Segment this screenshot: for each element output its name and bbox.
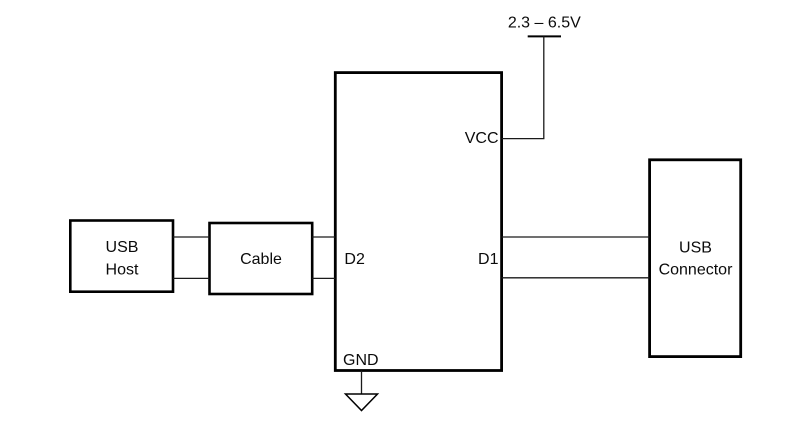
- wire VCC horizontal (pin VCC to supply drop): [502, 138, 545, 140]
- svg-text:2.3 – 6.5V: 2.3 – 6.5V: [508, 15, 581, 32]
- wire supply vertical (rail to VCC wire): [543, 36, 545, 138]
- block Cable: [210, 223, 313, 294]
- ground symbol: [346, 394, 378, 411]
- wire D2 lower: Cable to device: [312, 277, 335, 279]
- svg-text:Host: Host: [106, 261, 139, 278]
- svg-text:D2: D2: [344, 251, 365, 268]
- device block U1 (USB transceiver): [335, 73, 501, 371]
- block USB Host: [70, 221, 173, 292]
- svg-text:USB: USB: [106, 239, 139, 256]
- svg-text:D1: D1: [478, 251, 499, 268]
- svg-text:Cable: Cable: [240, 251, 282, 268]
- svg-text:VCC: VCC: [465, 130, 499, 147]
- power supply rail bar: [528, 35, 561, 37]
- wire GND stub: [361, 371, 363, 395]
- svg-text:USB: USB: [679, 239, 712, 256]
- svg-text:Connector: Connector: [659, 262, 733, 279]
- wire D+ upper: USB Host to Cable: [173, 236, 210, 238]
- wire D- lower: USB Host to Cable: [173, 277, 210, 279]
- wire D2 upper: Cable to device: [312, 236, 335, 238]
- wire D1 lower: device to USB Connector: [502, 277, 650, 279]
- wire D1 upper: device to USB Connector: [502, 236, 650, 238]
- svg-text:GND: GND: [343, 352, 379, 369]
- block USB Connector: [650, 160, 741, 357]
